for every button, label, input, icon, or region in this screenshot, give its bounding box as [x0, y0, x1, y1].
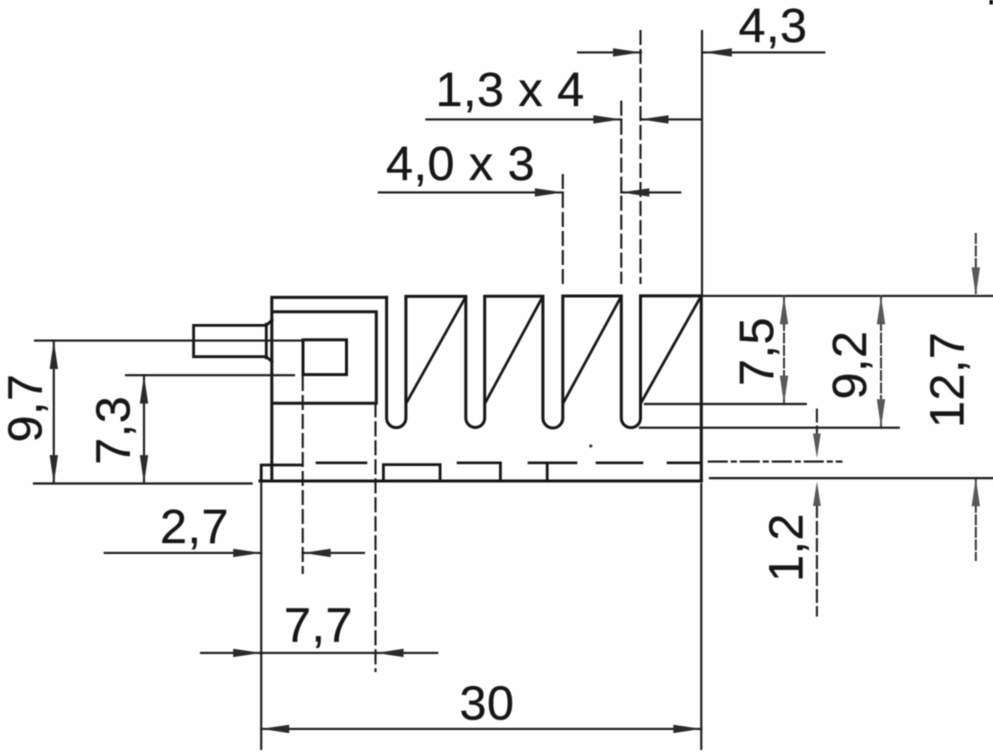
dimension 4,3 line: [578, 51, 824, 53]
fins outline with U slots: [387, 296, 702, 481]
scan speck dot: [589, 444, 592, 447]
reference line 7,3 top: [126, 374, 294, 376]
svg-text:2,7: 2,7: [160, 500, 229, 554]
base top dash 5: [668, 461, 701, 464]
dimension 9,2 line: [880, 296, 882, 428]
base top dash 4: [597, 461, 642, 464]
arrowhead 9,2 up: [877, 296, 885, 324]
svg-text:12,7: 12,7: [921, 332, 975, 428]
small cavity rectangle: [303, 340, 347, 375]
top extension right edge: [701, 31, 703, 296]
arrowhead 4,3 right: [613, 48, 641, 56]
arrowhead 30 right: [673, 725, 701, 733]
pad edge b: [546, 464, 549, 482]
svg-text:9,2: 9,2: [823, 331, 877, 400]
dimension 12,7 line: [975, 234, 977, 560]
base top dash 3: [529, 461, 576, 464]
dimension 30 line: [261, 728, 701, 730]
arrowhead 4,0 right: [535, 188, 563, 196]
extension line left edge down: [260, 481, 262, 749]
arrowhead 12,7 down: [972, 267, 980, 295]
arrowhead 1,3 right: [593, 115, 621, 123]
left foot: [261, 465, 301, 481]
arrowhead 1,2 down: [813, 434, 821, 459]
svg-text:4,0 x 3: 4,0 x 3: [386, 137, 535, 191]
right top reference line: [701, 295, 993, 297]
centerline dashed: [302, 377, 304, 573]
base bottom edge: [260, 480, 701, 483]
base pad: [383, 465, 440, 481]
arrowhead 7,3 down: [140, 455, 148, 483]
dimension 9,7 line: [53, 341, 55, 484]
dimension 1,3x4 line: [426, 118, 701, 120]
solder pin tab: [194, 320, 272, 362]
mounting block outer outline: [272, 297, 387, 481]
top extension dashed b: [620, 102, 622, 283]
dimension 7,5 line: [783, 296, 785, 404]
arrowhead 4,0 left: [621, 188, 649, 196]
svg-text:7,7: 7,7: [284, 599, 353, 653]
top extension dashed c: [639, 31, 641, 283]
arrowhead 1,3 left: [641, 115, 669, 123]
arrowhead 7,5 up: [780, 296, 788, 324]
dimension 7,7 line: [201, 652, 437, 654]
svg-text:1,2: 1,2: [760, 513, 814, 582]
arrowhead 7,5 down: [780, 376, 788, 404]
reference line left bottom: [34, 482, 252, 484]
base top dash 2: [458, 461, 500, 464]
arrowhead 7,7 right: [233, 649, 261, 657]
bottom right reference line: [710, 477, 993, 479]
arrowhead 7,3 up: [140, 375, 148, 403]
pad edge a: [499, 464, 502, 482]
dimension 1,2 line dashed: [816, 410, 818, 616]
fin 4 hatch diagonal: [642, 297, 701, 402]
reference line 9,2 bottom: [640, 427, 899, 429]
arrowhead 12,7 up: [972, 478, 980, 506]
arrowhead 9,7 down: [50, 455, 58, 483]
dimension 2,7 line: [105, 552, 364, 554]
base top dash 1: [317, 461, 366, 464]
svg-text:7,3: 7,3: [87, 396, 141, 465]
svg-text:9,7: 9,7: [0, 374, 53, 443]
dimension 4,0x3 line: [379, 191, 681, 193]
svg-text:7,5: 7,5: [730, 317, 784, 386]
fin 2 hatch diagonal: [486, 297, 543, 402]
reference line 1,2 top dashdot: [709, 461, 842, 463]
svg-text:30: 30: [460, 677, 515, 731]
arrowhead 30 left: [261, 725, 289, 733]
arrowhead 9,2 down: [877, 399, 885, 427]
mounting block inner step: [272, 312, 376, 404]
corner scan mark: [990, 0, 993, 5]
reference line 7,5 bottom: [645, 403, 806, 405]
arrowhead 2,7 right: [233, 549, 261, 557]
arrowhead 4,3 left: [704, 48, 732, 56]
svg-text:1,3 x 4: 1,3 x 4: [436, 63, 585, 117]
arrowhead 2,7 left: [303, 549, 331, 557]
fin 1 hatch diagonal: [407, 297, 466, 402]
fin 3 hatch diagonal: [564, 297, 621, 402]
reference line 9,7 top: [35, 340, 303, 342]
extension line right edge down: [700, 484, 702, 749]
arrowhead 1,2 up: [813, 482, 821, 507]
arrowhead 9,7 up: [50, 341, 58, 369]
arrowhead 7,7 left: [376, 649, 404, 657]
top extension dashed a: [562, 175, 564, 284]
extension line inner edge down dashed: [374, 403, 376, 671]
dimension 7,3 line: [143, 375, 145, 483]
svg-text:4,3: 4,3: [739, 0, 808, 53]
